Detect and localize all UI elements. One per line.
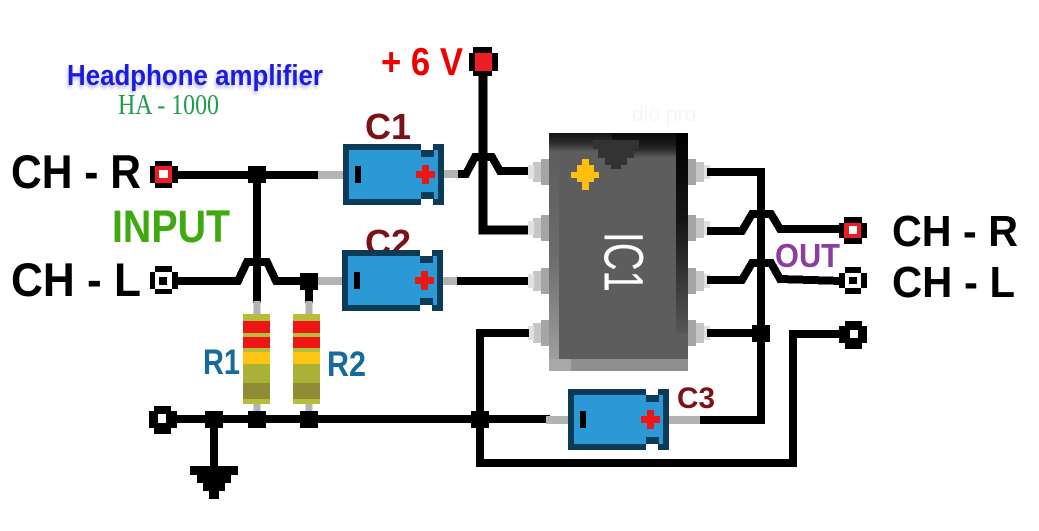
wire pin4 left to ground, bottom rail, to output common ring <box>480 333 841 463</box>
wire junction CH-R to R1 vertical <box>253 179 261 303</box>
capacitor C3 <box>568 389 669 450</box>
IC pins right <box>688 159 696 346</box>
wire gray lead out of C2 <box>443 277 461 285</box>
IC1 pin-1 marker (yellow star) <box>571 159 599 190</box>
svg-text:C3: C3 <box>677 382 715 415</box>
wire input CH-R row <box>178 171 322 179</box>
wire pin1 right to output vertical and down to C3 <box>699 172 761 420</box>
capacitor C1 <box>343 144 444 205</box>
wire ground rail <box>176 415 550 423</box>
svg-text:HA - 1000: HA - 1000 <box>118 90 219 121</box>
terminal output CH-R (red/white) <box>839 217 867 244</box>
node junction ground symbol <box>205 411 223 428</box>
IC1 notch <box>593 140 639 169</box>
ground symbol <box>190 425 238 499</box>
wire pin2 right with hop to output CH-R terminal <box>707 214 843 231</box>
svg-text:R2: R2 <box>327 345 366 384</box>
node junction CH-R input <box>248 166 266 183</box>
resistor R1 <box>243 314 270 404</box>
wire gray lead into C1 <box>318 171 346 179</box>
wire pin3 right with hop to output CH-L terminal <box>707 263 841 281</box>
svg-text:CH - R: CH - R <box>892 207 1018 256</box>
node junction R1 bottom <box>248 411 266 428</box>
terminal output common ring <box>839 321 867 349</box>
IC pins left <box>541 159 549 346</box>
wire input CH-L row with hop over R1 vertical <box>176 262 322 281</box>
svg-text:IC1: IC1 <box>593 232 656 292</box>
wire gray lead out of C1 <box>444 170 462 178</box>
terminal input CH-L (white/dot) <box>150 266 178 294</box>
node junction CH-L input <box>300 273 318 290</box>
resistor R2 <box>293 314 320 404</box>
node junction output vertical <box>752 325 770 342</box>
svg-text:CH - L: CH - L <box>11 253 141 306</box>
wire junction CH-L to R2 vertical <box>305 285 313 303</box>
wire C2 to pin3 <box>457 277 529 285</box>
svg-text:CH - L: CH - L <box>892 258 1015 307</box>
svg-text:Headphone amplifier: Headphone amplifier <box>67 60 323 92</box>
op-amp IC1 body <box>549 133 688 371</box>
resistor R1 leads (gray) <box>254 301 261 316</box>
svg-text:CH - R: CH - R <box>11 145 141 198</box>
svg-text:C1: C1 <box>365 106 411 147</box>
wire gray lead out of C3 <box>668 416 700 424</box>
terminal ground ring (left) <box>149 406 177 434</box>
svg-text:OUT: OUT <box>775 237 840 274</box>
node junction R2 bottom <box>300 411 318 428</box>
capacitor C2 <box>342 250 443 311</box>
terminal input CH-R (red/white) <box>150 161 178 188</box>
resistor R2 leads (gray) <box>306 301 313 316</box>
svg-text:INPUT: INPUT <box>112 201 230 252</box>
svg-text:R1: R1 <box>203 343 240 382</box>
node junction ground rail at x480 <box>471 411 489 428</box>
terminal +6V (red square) <box>469 47 498 76</box>
svg-text:dio pro: dio pro <box>632 103 696 126</box>
terminal output CH-L (white/dot) <box>839 267 867 294</box>
wire gray lead into C2 <box>318 277 346 285</box>
wire +6V vertical to pin2 <box>483 73 529 230</box>
wire pin4 right to junction <box>707 329 761 337</box>
wire C1 to pin1 with hop over +6V wire <box>458 157 529 174</box>
wire gray lead into C3 <box>546 416 570 424</box>
svg-text:+ 6 V: + 6 V <box>381 41 463 84</box>
